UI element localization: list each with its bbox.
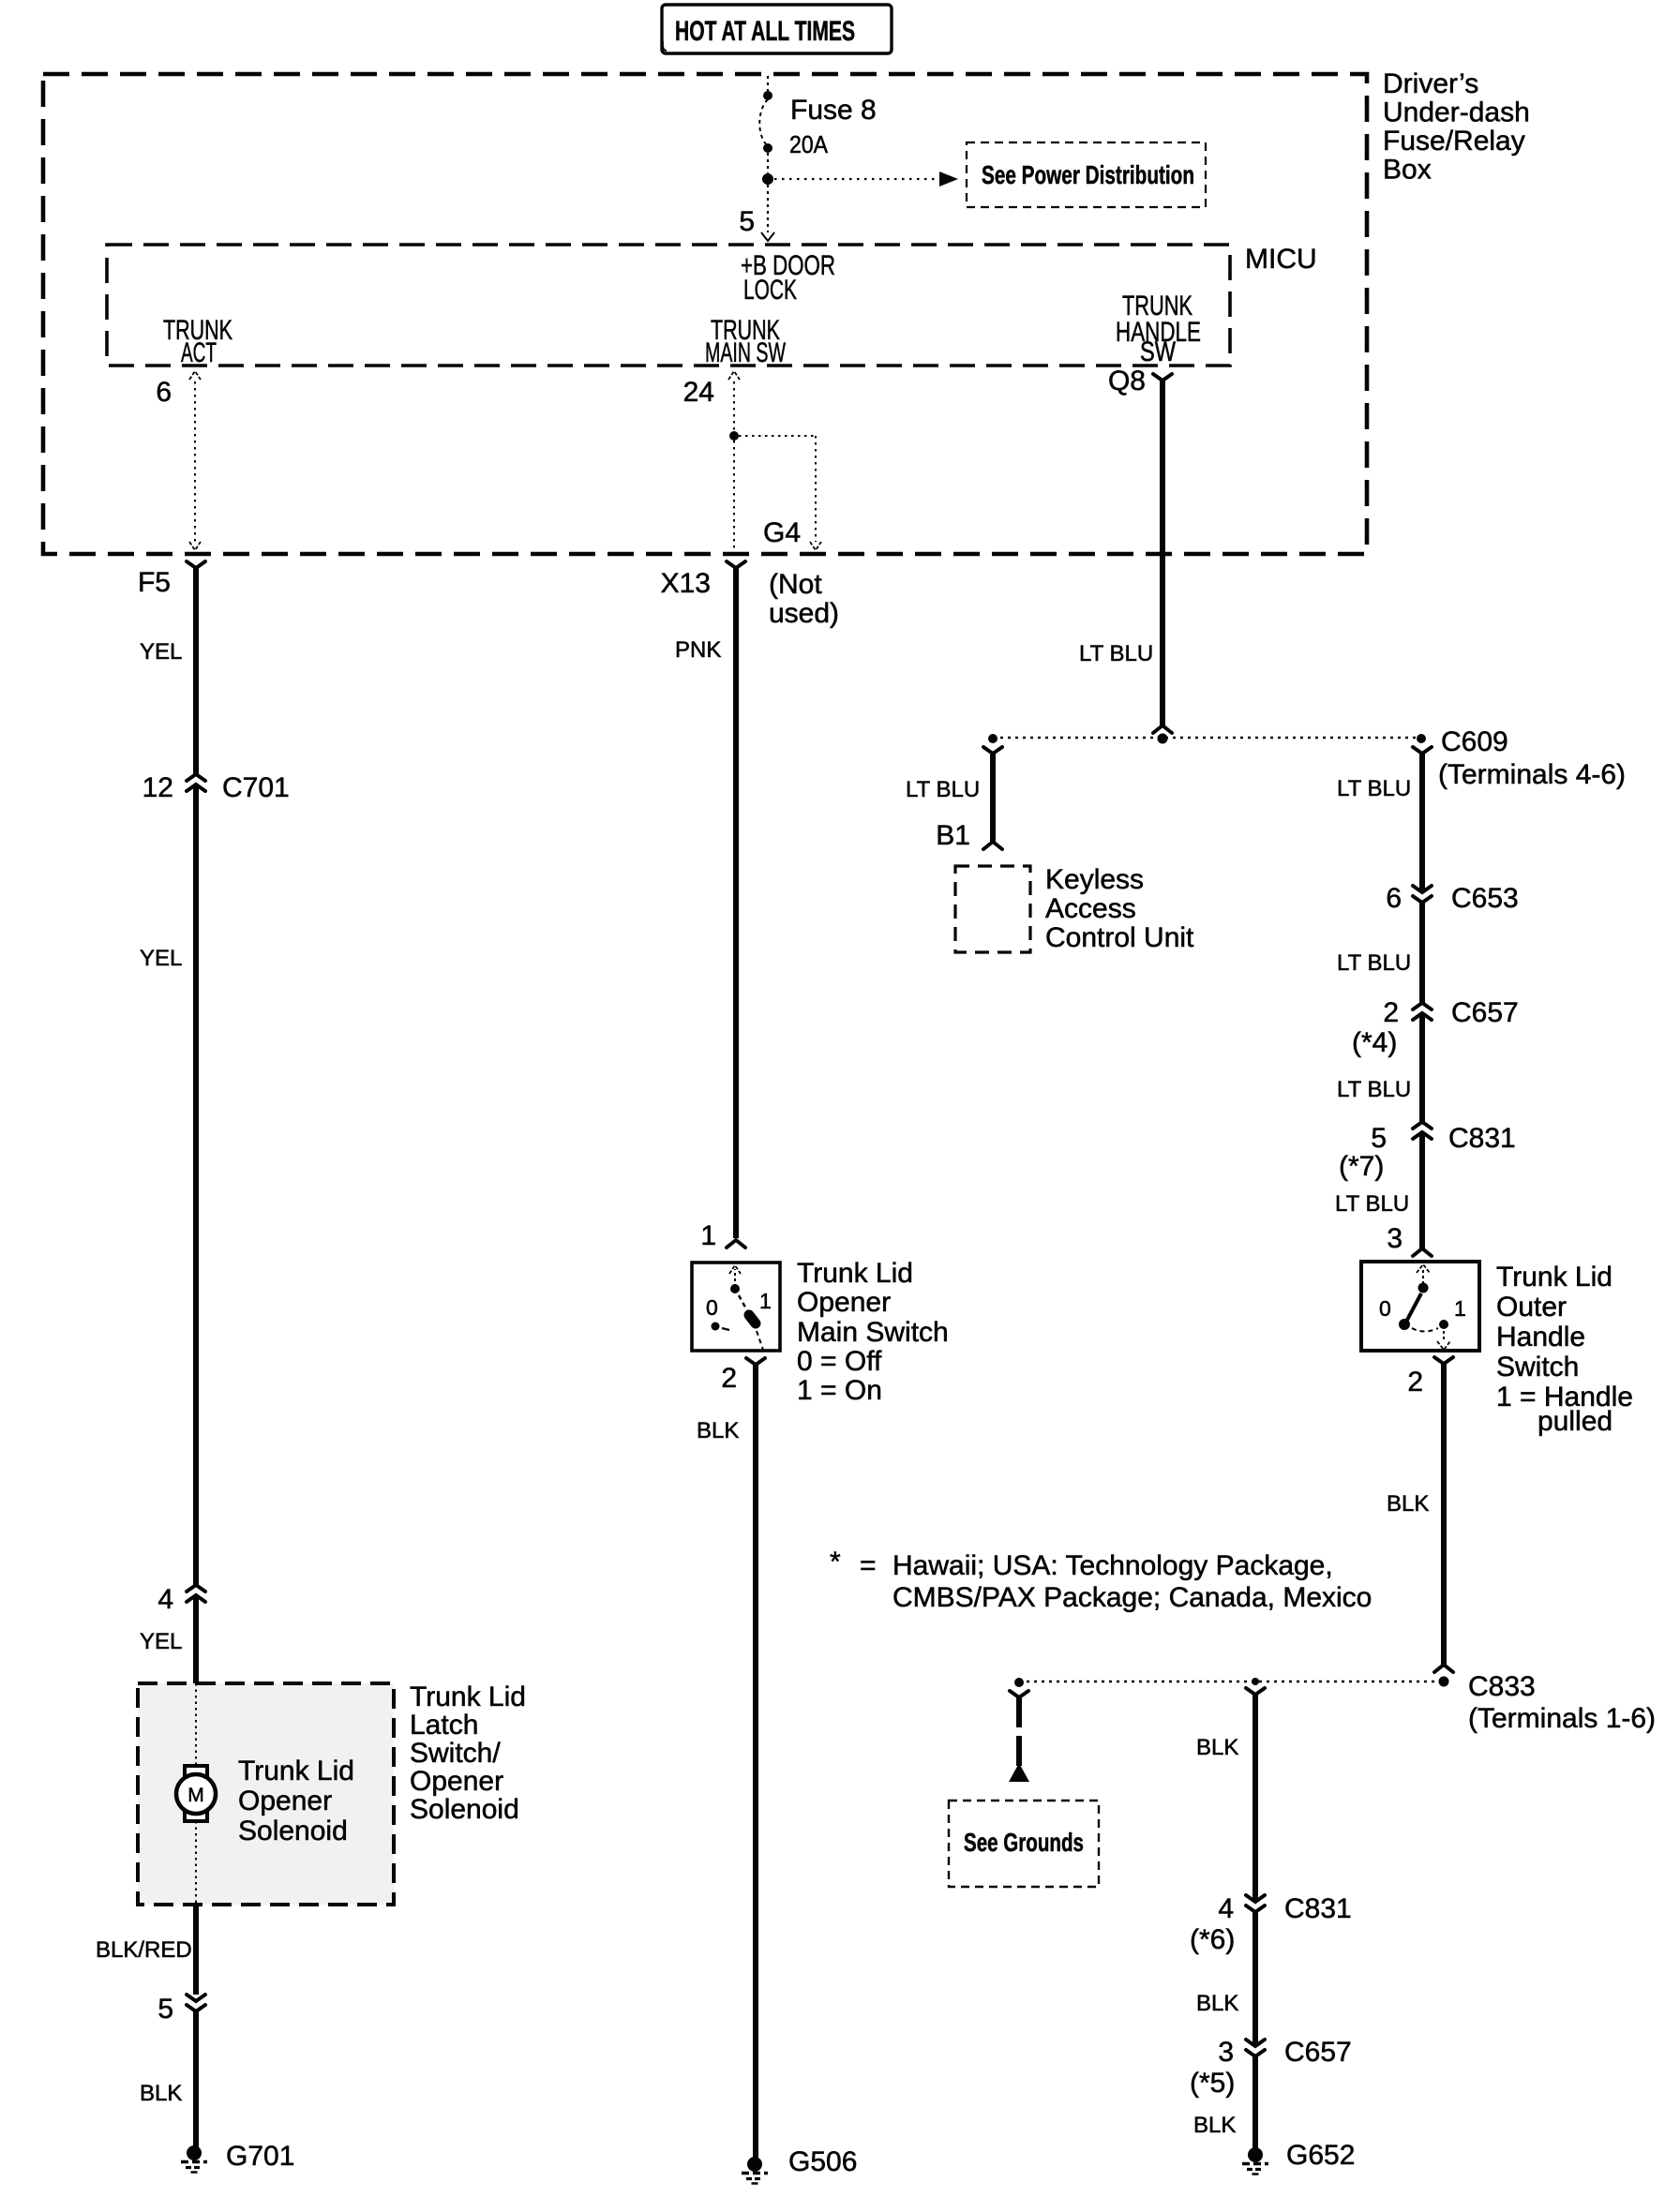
pin label TRUNK MAIN SW <box>705 315 786 368</box>
svg-text:(Terminals 1-6): (Terminals 1-6) <box>1468 1703 1656 1734</box>
svg-text:Fuse 8: Fuse 8 <box>790 95 877 126</box>
label Trunk Lid Opener Main Switch 0=Off 1=On <box>797 1258 949 1406</box>
connector fork below C833 middle dot <box>1246 1688 1265 1695</box>
connector fork at main switch pin 1 <box>727 1240 745 1248</box>
wire YEL F5 to C701 <box>193 568 199 774</box>
svg-text:BLK: BLK <box>1196 1735 1238 1760</box>
svg-text:3: 3 <box>1218 2037 1234 2068</box>
svg-text:LT BLU: LT BLU <box>906 777 980 802</box>
label Driver's Under-dash Fuse/Relay Box <box>1383 68 1530 186</box>
wire LT BLU C653 to C657 <box>1419 903 1425 1003</box>
svg-text:BLK: BLK <box>140 2081 182 2106</box>
svg-text:BLK/RED: BLK/RED <box>96 1937 192 1963</box>
connector C657 (arrows up) <box>1413 1003 1432 1020</box>
svg-text:0: 0 <box>706 1295 718 1320</box>
component box: Keyless Access Control Unit (dashed) <box>955 866 1030 952</box>
wire BLK main switch to G506 <box>753 1365 758 2159</box>
wire: dashed from junction down to MICU pin 5 <box>761 185 774 241</box>
svg-text:G652: G652 <box>1286 2140 1355 2171</box>
ground G506 <box>742 2157 768 2184</box>
svg-text:(*5): (*5) <box>1190 2068 1235 2099</box>
svg-text:Trunk Lid: Trunk Lid <box>797 1258 913 1289</box>
label (Not used) <box>769 569 839 629</box>
label Trunk Lid Outer Handle Switch 1=Handle pulled <box>1496 1262 1633 1437</box>
svg-text:B1: B1 <box>936 820 970 851</box>
svg-text:LT BLU: LT BLU <box>1337 776 1411 801</box>
svg-text:Solenoid: Solenoid <box>238 1816 348 1846</box>
node: junction dot C833 left (to grounds) <box>1014 1678 1024 1687</box>
wire LT BLU C657 to C831 <box>1419 1013 1425 1122</box>
svg-text:G506: G506 <box>788 2146 857 2177</box>
wire LT BLU to Keyless Access Control Unit <box>990 754 996 842</box>
svg-text:Latch: Latch <box>410 1710 478 1741</box>
svg-text:Driver’s: Driver’s <box>1383 68 1478 99</box>
svg-text:Outer: Outer <box>1496 1292 1567 1323</box>
svg-text:G4: G4 <box>763 517 801 548</box>
ground G701 <box>181 2145 207 2173</box>
switch SW2: Trunk Lid Outer Handle Switch (box) <box>1361 1262 1479 1351</box>
wire: dashed feed from box top to fuse <box>767 76 769 91</box>
connector label C833 (Terminals 1-6) <box>1468 1671 1656 1734</box>
svg-text:Handle: Handle <box>1496 1322 1585 1353</box>
wire BLK C833 to C831 <box>1252 1695 1258 1902</box>
svg-text:1 = On: 1 = On <box>797 1375 882 1406</box>
svg-text:C609: C609 <box>1441 726 1508 757</box>
svg-text:(Terminals 4-6): (Terminals 4-6) <box>1438 759 1626 790</box>
svg-text:G701: G701 <box>226 2141 294 2172</box>
svg-text:C833: C833 <box>1468 1671 1536 1702</box>
connector C653 (arrows down) <box>1413 886 1432 903</box>
wire: dotted lead inside solenoid box (top) <box>195 1683 197 1766</box>
svg-text:1: 1 <box>759 1289 772 1313</box>
wire: dotted junction line C833 <box>1019 1681 1444 1682</box>
node: fuse top terminal <box>763 91 772 100</box>
arrow to grounds (solid triangle) <box>1009 1763 1029 1782</box>
wire LT BLU C609 to C653 <box>1419 754 1425 892</box>
pin label TRUNK ACT <box>163 315 232 368</box>
svg-text:BLK: BLK <box>1387 1491 1429 1517</box>
wire BLK C831 to C657 <box>1252 1912 1258 2046</box>
wire BLK pin 5 to ground <box>193 2011 199 2148</box>
svg-text:MICU: MICU <box>1245 244 1317 275</box>
connector C657 lower (arrows down) <box>1246 2040 1265 2056</box>
svg-text:SW: SW <box>1140 336 1177 367</box>
connector fork at main switch pin 2 <box>746 1358 765 1365</box>
wire YEL C701 to pin 4 <box>193 785 199 1585</box>
svg-text:2: 2 <box>1383 997 1399 1028</box>
svg-text:M: M <box>187 1785 204 1806</box>
svg-text:1: 1 <box>700 1220 716 1251</box>
connector fork at MICU pin Q8 <box>1153 374 1172 381</box>
svg-text:Box: Box <box>1383 155 1432 186</box>
wire: dotted arrow to See Power Distribution <box>774 172 958 187</box>
node: junction dot C833 middle <box>1252 1678 1259 1685</box>
svg-text:(Not: (Not <box>769 569 822 600</box>
pin label +B DOOR LOCK <box>741 250 835 306</box>
svg-text:Trunk Lid: Trunk Lid <box>238 1756 354 1786</box>
svg-text:LT BLU: LT BLU <box>1337 1077 1411 1102</box>
connector fork F5 <box>187 561 205 568</box>
svg-text:Trunk Lid: Trunk Lid <box>410 1681 526 1712</box>
svg-text:Opener: Opener <box>797 1287 891 1318</box>
svg-text:See Grounds: See Grounds <box>964 1828 1084 1857</box>
svg-text:CMBS/PAX Package; Canada, Mexi: CMBS/PAX Package; Canada, Mexico <box>892 1582 1372 1613</box>
svg-text:1: 1 <box>1454 1296 1466 1321</box>
svg-text:Fuse/Relay: Fuse/Relay <box>1383 126 1525 157</box>
svg-text:*: * <box>830 1547 841 1577</box>
label Keyless Access Control Unit <box>1045 864 1194 953</box>
svg-text:BLK: BLK <box>697 1418 739 1443</box>
svg-text:=: = <box>860 1550 877 1581</box>
svg-text:BLK: BLK <box>1193 2113 1236 2138</box>
connector fork at handle switch pin 2 <box>1434 1357 1453 1364</box>
svg-text:YEL: YEL <box>140 946 182 971</box>
svg-text:Main Switch: Main Switch <box>797 1317 949 1348</box>
svg-text:Access: Access <box>1045 893 1136 924</box>
svg-text:LT BLU: LT BLU <box>1079 641 1153 666</box>
svg-text:(*7): (*7) <box>1339 1151 1384 1182</box>
connector at solenoid pin 4 (arrows up) <box>187 1585 205 1602</box>
wire BLK/RED solenoid to pin 5 <box>193 1905 199 1995</box>
svg-text:BLK: BLK <box>1196 1991 1238 2016</box>
svg-text:pulled: pulled <box>1537 1406 1612 1437</box>
svg-text:F5: F5 <box>138 567 171 598</box>
svg-text:Hawaii; USA: Technology Packag: Hawaii; USA: Technology Package, <box>892 1550 1333 1581</box>
MICU (dashed box) <box>107 245 1230 366</box>
svg-text:Q8: Q8 <box>1108 366 1146 396</box>
wire: broken thick lead to grounds arrow <box>1016 1697 1022 1766</box>
svg-text:YEL: YEL <box>140 1629 182 1654</box>
svg-text:20A: 20A <box>789 130 829 158</box>
connector C831 (arrows up) <box>1413 1122 1432 1139</box>
svg-text:X13: X13 <box>661 568 711 599</box>
connector fork below C609 right dot <box>1413 747 1432 754</box>
svg-text:HOT AT ALL TIMES: HOT AT ALL TIMES <box>675 16 855 47</box>
node: junction dot right (C609) <box>1417 734 1426 743</box>
svg-text:2: 2 <box>721 1363 737 1394</box>
svg-text:5: 5 <box>1371 1123 1387 1154</box>
switch SW1: Trunk Lid Opener Main Switch (box) <box>692 1263 780 1351</box>
svg-text:Opener: Opener <box>238 1786 332 1816</box>
connector fork X13 <box>727 561 745 568</box>
svg-text:Solenoid: Solenoid <box>410 1794 519 1825</box>
svg-text:3: 3 <box>1387 1223 1402 1254</box>
wire: dashed from fuse to junction <box>767 153 769 174</box>
svg-text:6: 6 <box>1386 883 1402 914</box>
svg-text:Switch/: Switch/ <box>410 1738 501 1769</box>
component box: Trunk Lid Latch Switch/Opener Solenoid (dashed) <box>138 1683 394 1905</box>
connector label C609 (Terminals 4-6) <box>1438 726 1626 790</box>
reference box: See Grounds <box>949 1801 1099 1887</box>
svg-text:C831: C831 <box>1284 1893 1352 1924</box>
svg-text:LT BLU: LT BLU <box>1335 1191 1409 1217</box>
node: fuse bottom terminal <box>763 143 772 153</box>
svg-text:Control Unit: Control Unit <box>1045 922 1194 953</box>
svg-text:MAIN SW: MAIN SW <box>705 337 786 368</box>
label Trunk Lid Latch Switch/Opener Solenoid <box>410 1681 526 1825</box>
svg-text:C701: C701 <box>222 772 290 803</box>
wire BLK C657 to ground <box>1252 2056 1258 2150</box>
connector fork at handle switch pin 3 <box>1413 1248 1432 1256</box>
svg-text:(*6): (*6) <box>1190 1924 1235 1955</box>
svg-text:24: 24 <box>683 377 714 408</box>
pin label TRUNK HANDLE SW <box>1116 291 1201 367</box>
svg-text:C653: C653 <box>1451 883 1519 914</box>
svg-text:Opener: Opener <box>410 1766 503 1797</box>
node: junction on pin 24 wire <box>729 431 739 441</box>
wire LT BLU from MICU pin Q8 down to junction <box>1160 381 1165 725</box>
connector fork B1 bottom <box>983 842 1002 849</box>
node: junction dot C609 center <box>1158 734 1168 744</box>
svg-text:YEL: YEL <box>140 639 182 665</box>
reference box: See Power Distribution <box>967 142 1206 207</box>
node: junction dot left (to Keyless) <box>988 734 997 743</box>
connector fork B1 top <box>983 747 1002 754</box>
node: junction dot C833 right <box>1439 1677 1449 1687</box>
connector fork below C833 left dot <box>1010 1691 1028 1697</box>
svg-text:6: 6 <box>156 377 172 408</box>
svg-text:Trunk Lid: Trunk Lid <box>1496 1262 1612 1293</box>
svg-text:ACT: ACT <box>181 337 217 368</box>
wire: dotted branch to G4 (not used) <box>739 436 821 550</box>
connector C831 lower (arrows down) <box>1246 1895 1265 1912</box>
wire PNK X13 to main switch pin 1 <box>733 568 739 1238</box>
svg-text:(*4): (*4) <box>1352 1027 1397 1058</box>
svg-text:LT BLU: LT BLU <box>1337 950 1411 976</box>
svg-text:4: 4 <box>1218 1893 1234 1924</box>
svg-text:See Power Distribution: See Power Distribution <box>982 160 1194 189</box>
label Trunk Lid Opener Solenoid (inside box) <box>238 1756 354 1846</box>
wire YEL pin 4 to solenoid box <box>193 1595 199 1683</box>
svg-text:used): used) <box>769 598 839 629</box>
svg-text:0 = Off: 0 = Off <box>797 1346 882 1377</box>
svg-text:Keyless: Keyless <box>1045 864 1144 895</box>
svg-text:Switch: Switch <box>1496 1352 1579 1382</box>
node: junction to power distribution <box>762 173 773 185</box>
svg-text:C831: C831 <box>1448 1123 1516 1154</box>
note: asterisk variant legend <box>830 1547 1372 1613</box>
label box HOT AT ALL TIMES <box>662 5 892 53</box>
fuse F8 (Fuse 8 20A) <box>759 95 876 158</box>
wire: dotted double-arrow TRUNK ACT to F5 <box>189 371 201 550</box>
svg-text:C657: C657 <box>1284 2037 1352 2068</box>
ground G652 <box>1242 2147 1268 2175</box>
svg-text:C657: C657 <box>1451 997 1519 1028</box>
svg-text:12: 12 <box>142 772 173 803</box>
svg-text:4: 4 <box>157 1584 173 1615</box>
wire: dotted lead inside solenoid box (bottom) <box>195 1821 197 1905</box>
svg-text:PNK: PNK <box>675 637 721 663</box>
svg-text:LOCK: LOCK <box>743 275 797 306</box>
svg-text:5: 5 <box>739 206 755 237</box>
connector at pin 5 (arrows down) <box>187 1995 205 2011</box>
wire LT BLU C831 to handle switch pin 3 <box>1419 1132 1425 1248</box>
enclosure: Driver's Under-dash Fuse/Relay Box (dashed) <box>43 74 1367 554</box>
svg-text:2: 2 <box>1407 1367 1423 1397</box>
svg-text:0: 0 <box>1379 1296 1391 1321</box>
wire: dotted from TRUNK MAIN SW pin 24 down to X13 <box>728 371 740 554</box>
wire BLK handle switch to C833 junction <box>1441 1364 1447 1665</box>
svg-text:Under-dash: Under-dash <box>1383 97 1530 128</box>
motor M: trunk lid opener solenoid <box>176 1766 216 1821</box>
connector C701 (in-line, arrows up) <box>187 774 205 791</box>
connector fork at end of BLK wire (C833) <box>1434 1665 1453 1672</box>
svg-text:5: 5 <box>157 1994 173 2025</box>
connector fork at end of Q8 wire <box>1153 725 1172 733</box>
wire: dotted junction line C609 <box>993 737 1422 739</box>
